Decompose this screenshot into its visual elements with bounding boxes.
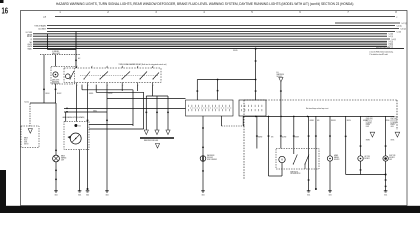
svg-text:GRN/RED: GRN/RED (258, 136, 263, 138)
svg-text:G251: G251 (328, 194, 331, 196)
svg-text:S-1 (8): S-1 (8) (397, 31, 402, 33)
svg-text:M: M (281, 159, 283, 161)
svg-text:G402: G402 (105, 194, 108, 196)
svg-text:LEVEL: LEVEL (24, 141, 28, 143)
svg-text:NOISE CONDENSER: NOISE CONDENSER (207, 159, 217, 161)
svg-text:FLUID: FLUID (24, 139, 27, 141)
svg-text:IG1 TURN: IG1 TURN (26, 32, 33, 34)
svg-text:HAZARD WARNING LIGHTS, TURN SI: HAZARD WARNING LIGHTS, TURN SIGNAL LIGHT… (56, 2, 353, 6)
svg-text:SWITCH: SWITCH (24, 143, 28, 145)
svg-text:RED/YEL: RED/YEL (347, 120, 351, 122)
svg-text:S-15 (2): S-15 (2) (401, 28, 407, 30)
svg-text:G251: G251 (307, 194, 310, 196)
svg-text:LIGHTS: LIGHTS (27, 46, 33, 48)
svg-text:GRN/WHT: GRN/WHT (294, 136, 299, 138)
svg-text:DEFOGGER: DEFOGGER (207, 157, 213, 159)
svg-text:G251: G251 (384, 194, 387, 196)
svg-text:LIGHTS: LIGHTS (27, 44, 33, 46)
svg-text:GRN/BLK: GRN/BLK (310, 120, 314, 122)
svg-text:RED/BLK: RED/BLK (46, 93, 50, 95)
svg-text:M-4 (5): M-4 (5) (25, 101, 30, 103)
svg-text:LIGHTS: LIGHTS (366, 126, 369, 128)
svg-text:G401: G401 (78, 194, 81, 196)
svg-text:16: 16 (2, 8, 9, 16)
svg-text:G402: G402 (201, 194, 204, 196)
svg-text:BLK/WHT: BLK/WHT (108, 93, 112, 95)
svg-text:LIGHTS: LIGHTS (391, 126, 394, 128)
svg-text:G401: G401 (54, 194, 57, 196)
svg-text:TURN SIGNAL/HAZARD RELAY (Buil: TURN SIGNAL/HAZARD RELAY (Built into the… (119, 63, 167, 66)
svg-text:GRN/YEL: GRN/YEL (391, 139, 395, 141)
svg-text:G401: G401 (86, 194, 89, 196)
svg-text:ILL RED/BLK: ILL RED/BLK (52, 51, 59, 53)
svg-text:LEFT TURN: LEFT TURN (364, 156, 369, 158)
svg-text:BLU/RED: BLU/RED (282, 136, 286, 138)
svg-text:LIGHT: LIGHT (61, 159, 64, 161)
svg-text:WHT/GRN: WHT/GRN (233, 50, 237, 52)
svg-text:RUNNING: RUNNING (366, 124, 370, 126)
svg-text:DEFOGGER SWITCH: DEFOGGER SWITCH (290, 173, 300, 175)
svg-text:GRN: GRN (317, 120, 319, 122)
svg-text:GRN/RED: GRN/RED (89, 93, 93, 95)
svg-text:RUNNING: RUNNING (391, 124, 395, 126)
svg-text:C-9 RIGHT TURN: C-9 RIGHT TURN (391, 116, 398, 118)
svg-text:p: p (397, 16, 398, 18)
svg-text:S-17 (2): S-17 (2) (402, 23, 408, 25)
svg-text:S-7 (1): S-7 (1) (389, 46, 394, 48)
svg-text:S-16 (1): S-16 (1) (397, 25, 403, 27)
svg-text:RED/GRN: RED/GRN (331, 120, 336, 122)
svg-text:GRN/BLU: GRN/BLU (93, 110, 97, 112)
svg-text:RIGHT TURN: RIGHT TURN (389, 155, 395, 157)
svg-text:LIGHT: LIGHT (389, 159, 392, 161)
svg-text:RED/WHT: RED/WHT (57, 93, 61, 95)
svg-text:Blue hazard lamps and turn lam: Blue hazard lamps and turn lamps circuit (306, 106, 329, 110)
svg-text:RR DEF: RR DEF (27, 36, 32, 38)
svg-text:BULB: BULB (79, 125, 81, 127)
svg-text:GRN: GRN (271, 136, 273, 138)
svg-text:C-8 LEFT TURN: C-8 LEFT TURN (366, 116, 373, 118)
svg-text:GRN/YEL: GRN/YEL (385, 120, 390, 122)
svg-text:GRN/RED: GRN/RED (366, 139, 370, 141)
